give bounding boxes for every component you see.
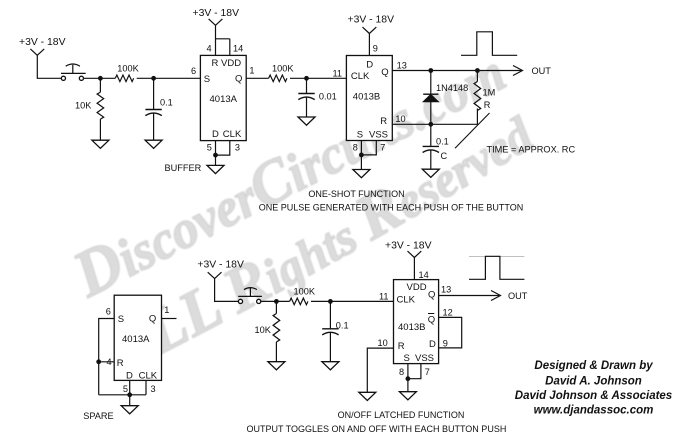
svg-text:VSS: VSS xyxy=(369,130,388,141)
wire Q stub xyxy=(162,318,177,320)
capacitor 0.1 (top left) xyxy=(145,78,172,140)
capacitor 0.1 (bottom) xyxy=(322,301,348,361)
svg-text:CLK: CLK xyxy=(351,71,370,82)
wires pins 8,7 to ground xyxy=(408,364,421,392)
svg-text:www.djandassoc.com: www.djandassoc.com xyxy=(534,404,654,416)
svg-text:8: 8 xyxy=(353,142,358,152)
svg-text:3: 3 xyxy=(151,384,156,394)
ground xyxy=(145,140,162,148)
svg-text:7: 7 xyxy=(425,367,430,377)
power symbol +3V-18V (top left) xyxy=(19,37,66,55)
svg-text:D: D xyxy=(429,339,436,350)
svg-text:Designed & Drawn by: Designed & Drawn by xyxy=(534,360,653,372)
svg-text:9: 9 xyxy=(443,338,448,348)
ground xyxy=(121,406,138,414)
wire power to pin 14 xyxy=(413,258,415,280)
node junction xyxy=(98,76,103,81)
wire S-R loop xyxy=(99,319,115,395)
svg-text:OUT: OUT xyxy=(532,66,552,76)
svg-text:10K: 10K xyxy=(75,101,92,111)
svg-text:+3V - 18V: +3V - 18V xyxy=(193,8,240,19)
svg-text:CLK: CLK xyxy=(397,295,416,306)
svg-text:R: R xyxy=(380,116,387,127)
node junction xyxy=(274,299,279,304)
op IC U3 4013A spare xyxy=(114,295,161,381)
svg-text:4013A: 4013A xyxy=(210,94,238,105)
svg-text:13: 13 xyxy=(397,61,407,71)
svg-text:+3V - 18V: +3V - 18V xyxy=(385,241,432,252)
svg-text:1M: 1M xyxy=(483,88,496,98)
svg-text:BUFFER: BUFFER xyxy=(165,163,202,173)
svg-text:4013A: 4013A xyxy=(122,334,150,345)
power symbol +3V-18V (bottom left) xyxy=(197,259,244,278)
credits xyxy=(515,360,672,416)
svg-text:S: S xyxy=(404,353,410,364)
svg-text:+3V - 18V: +3V - 18V xyxy=(197,259,244,270)
wires power to pins 4,14 xyxy=(216,25,230,55)
svg-text:ONE PULSE GENERATED WITH EACH: ONE PULSE GENERATED WITH EACH PUSH OF TH… xyxy=(259,203,524,213)
callout line xyxy=(455,113,490,148)
svg-text:C: C xyxy=(441,151,448,161)
pushbutton S2 xyxy=(238,287,262,303)
svg-text:SPARE: SPARE xyxy=(83,411,113,421)
arrow OUT xyxy=(513,66,523,76)
wire resistor to IC4 xyxy=(311,300,394,302)
svg-text:OUTPUT TOGGLES ON AND OFF WITH: OUTPUT TOGGLES ON AND OFF WITH EACH BUTT… xyxy=(246,424,506,434)
svg-text:0.1: 0.1 xyxy=(436,137,449,147)
svg-text:5: 5 xyxy=(123,384,128,394)
svg-text:7: 7 xyxy=(380,142,385,152)
svg-text:6: 6 xyxy=(106,307,111,317)
node junction xyxy=(96,359,101,364)
svg-text:VSS: VSS xyxy=(415,353,434,364)
svg-text:9: 9 xyxy=(373,44,378,54)
svg-text:+3V - 18V: +3V - 18V xyxy=(19,37,66,48)
node junction xyxy=(428,68,433,73)
arrow OUT xyxy=(491,291,501,301)
pushbutton S1 xyxy=(61,64,86,80)
svg-text:+3V - 18V: +3V - 18V xyxy=(348,15,395,26)
svg-text:R: R xyxy=(117,358,124,369)
svg-text:S: S xyxy=(204,74,210,85)
svg-text:CLK: CLK xyxy=(139,371,158,382)
waveform pulse (top) xyxy=(461,32,517,56)
svg-text:Q: Q xyxy=(381,67,388,78)
wire pin 10 to ground xyxy=(367,348,393,392)
node junction xyxy=(359,153,364,158)
svg-text:R: R xyxy=(484,100,491,110)
waveform pulse (bottom) xyxy=(469,256,524,279)
svg-text:3: 3 xyxy=(235,143,240,153)
svg-text:1: 1 xyxy=(249,66,254,76)
capacitor 0.01 xyxy=(298,78,336,117)
ground xyxy=(92,140,109,148)
resistor 100K (middle) xyxy=(269,63,295,81)
ground xyxy=(207,165,224,173)
svg-text:D: D xyxy=(212,129,219,140)
node junction xyxy=(475,68,480,73)
svg-text:5: 5 xyxy=(207,143,212,153)
svg-text:OUT: OUT xyxy=(508,291,528,301)
svg-text:1: 1 xyxy=(164,305,169,315)
svg-text:Q: Q xyxy=(149,314,156,325)
ground xyxy=(422,169,439,177)
wire power to button xyxy=(215,279,239,302)
svg-text:100K: 100K xyxy=(272,63,294,73)
svg-text:10K: 10K xyxy=(255,325,272,335)
diode 1N4148 xyxy=(423,71,468,125)
wire button to resistor xyxy=(84,77,116,79)
svg-text:10: 10 xyxy=(395,114,405,124)
ground xyxy=(322,362,339,370)
op IC U4 4013B xyxy=(394,280,439,364)
wire resistor to IC2 xyxy=(290,77,346,79)
wire power to pin 9 xyxy=(368,34,370,56)
wire resistor to IC1 xyxy=(137,77,200,79)
svg-text:TIME = APPROX. RC: TIME = APPROX. RC xyxy=(487,144,576,154)
svg-text:R VDD: R VDD xyxy=(212,58,242,69)
svg-text:100K: 100K xyxy=(117,64,139,74)
svg-text:D: D xyxy=(366,60,373,71)
watermark line 1: DiscoverCircuits.com xyxy=(61,42,517,312)
node junction xyxy=(428,122,433,127)
node junction xyxy=(127,392,132,397)
wires pins 8,7 to ground xyxy=(361,141,376,170)
svg-text:100K: 100K xyxy=(294,286,316,296)
resistor 100K (top left) xyxy=(115,64,139,82)
node junction xyxy=(328,299,333,304)
wire Q1 to resistor xyxy=(246,77,269,79)
node junction xyxy=(304,76,309,81)
ground xyxy=(268,362,285,370)
node junction xyxy=(406,376,411,381)
svg-text:S: S xyxy=(118,314,124,325)
ground xyxy=(359,392,376,400)
resistor 10K xyxy=(75,78,104,140)
waveform faint top line xyxy=(469,256,524,258)
wire pin10 rail xyxy=(392,123,477,125)
resistor 1M xyxy=(474,71,495,125)
svg-text:11: 11 xyxy=(333,69,343,79)
op IC U2 4013B xyxy=(346,56,392,141)
svg-text:S: S xyxy=(357,130,363,141)
svg-text:14: 14 xyxy=(419,270,429,280)
svg-text:0.1: 0.1 xyxy=(160,98,173,108)
svg-text:Q: Q xyxy=(428,289,435,300)
svg-text:1N4148: 1N4148 xyxy=(436,83,468,93)
power symbol +3V-18V (above IC2) xyxy=(348,15,395,34)
wire Q to OUT xyxy=(439,295,499,297)
svg-text:6: 6 xyxy=(191,66,196,76)
wires pins 5,3 to ground xyxy=(216,141,230,166)
power symbol +3V-18V (above IC1) xyxy=(193,8,240,25)
power symbol +3V-18V (above IC4) xyxy=(385,241,432,258)
svg-text:David Johnson & Associates: David Johnson & Associates xyxy=(515,390,672,402)
wire button to resistor xyxy=(261,300,290,302)
ground xyxy=(399,392,416,400)
capacitor C 0.1 xyxy=(423,124,449,169)
svg-text:ONE-SHOT FUNCTION: ONE-SHOT FUNCTION xyxy=(308,189,404,199)
svg-text:8: 8 xyxy=(399,367,404,377)
resistor 10K (bottom) xyxy=(255,301,280,361)
svg-text:CLK: CLK xyxy=(223,129,242,140)
wires pins 5,3 bottom rail xyxy=(99,380,146,405)
svg-text:13: 13 xyxy=(441,284,451,294)
resistor 100K (bottom) xyxy=(290,286,316,304)
svg-text:VDD: VDD xyxy=(407,282,427,293)
ground xyxy=(353,170,370,178)
watermark line 2: ALL Rights Reserved xyxy=(93,105,550,388)
svg-text:4013B: 4013B xyxy=(353,92,380,103)
wire Qbar to D feedback xyxy=(439,317,462,348)
svg-text:D: D xyxy=(126,371,133,382)
svg-text:ON/OFF LATCHED FUNCTION: ON/OFF LATCHED FUNCTION xyxy=(338,410,465,420)
svg-text:0.01: 0.01 xyxy=(319,91,337,101)
wire Q2 to OUT xyxy=(392,70,521,72)
svg-text:10: 10 xyxy=(378,338,388,348)
svg-text:Q: Q xyxy=(428,315,435,326)
ground xyxy=(298,117,315,125)
svg-text:Q: Q xyxy=(235,74,242,85)
svg-text:4: 4 xyxy=(207,44,212,54)
wire from power to button xyxy=(37,55,61,78)
svg-text:David A. Johnson: David A. Johnson xyxy=(545,375,642,387)
svg-text:11: 11 xyxy=(379,292,389,302)
svg-text:R: R xyxy=(398,341,405,352)
node junction xyxy=(213,153,218,158)
svg-text:12: 12 xyxy=(443,308,453,318)
svg-text:4013B: 4013B xyxy=(398,322,425,333)
node junction xyxy=(151,76,156,81)
svg-text:14: 14 xyxy=(233,44,243,54)
op IC U1 4013A xyxy=(200,55,246,140)
